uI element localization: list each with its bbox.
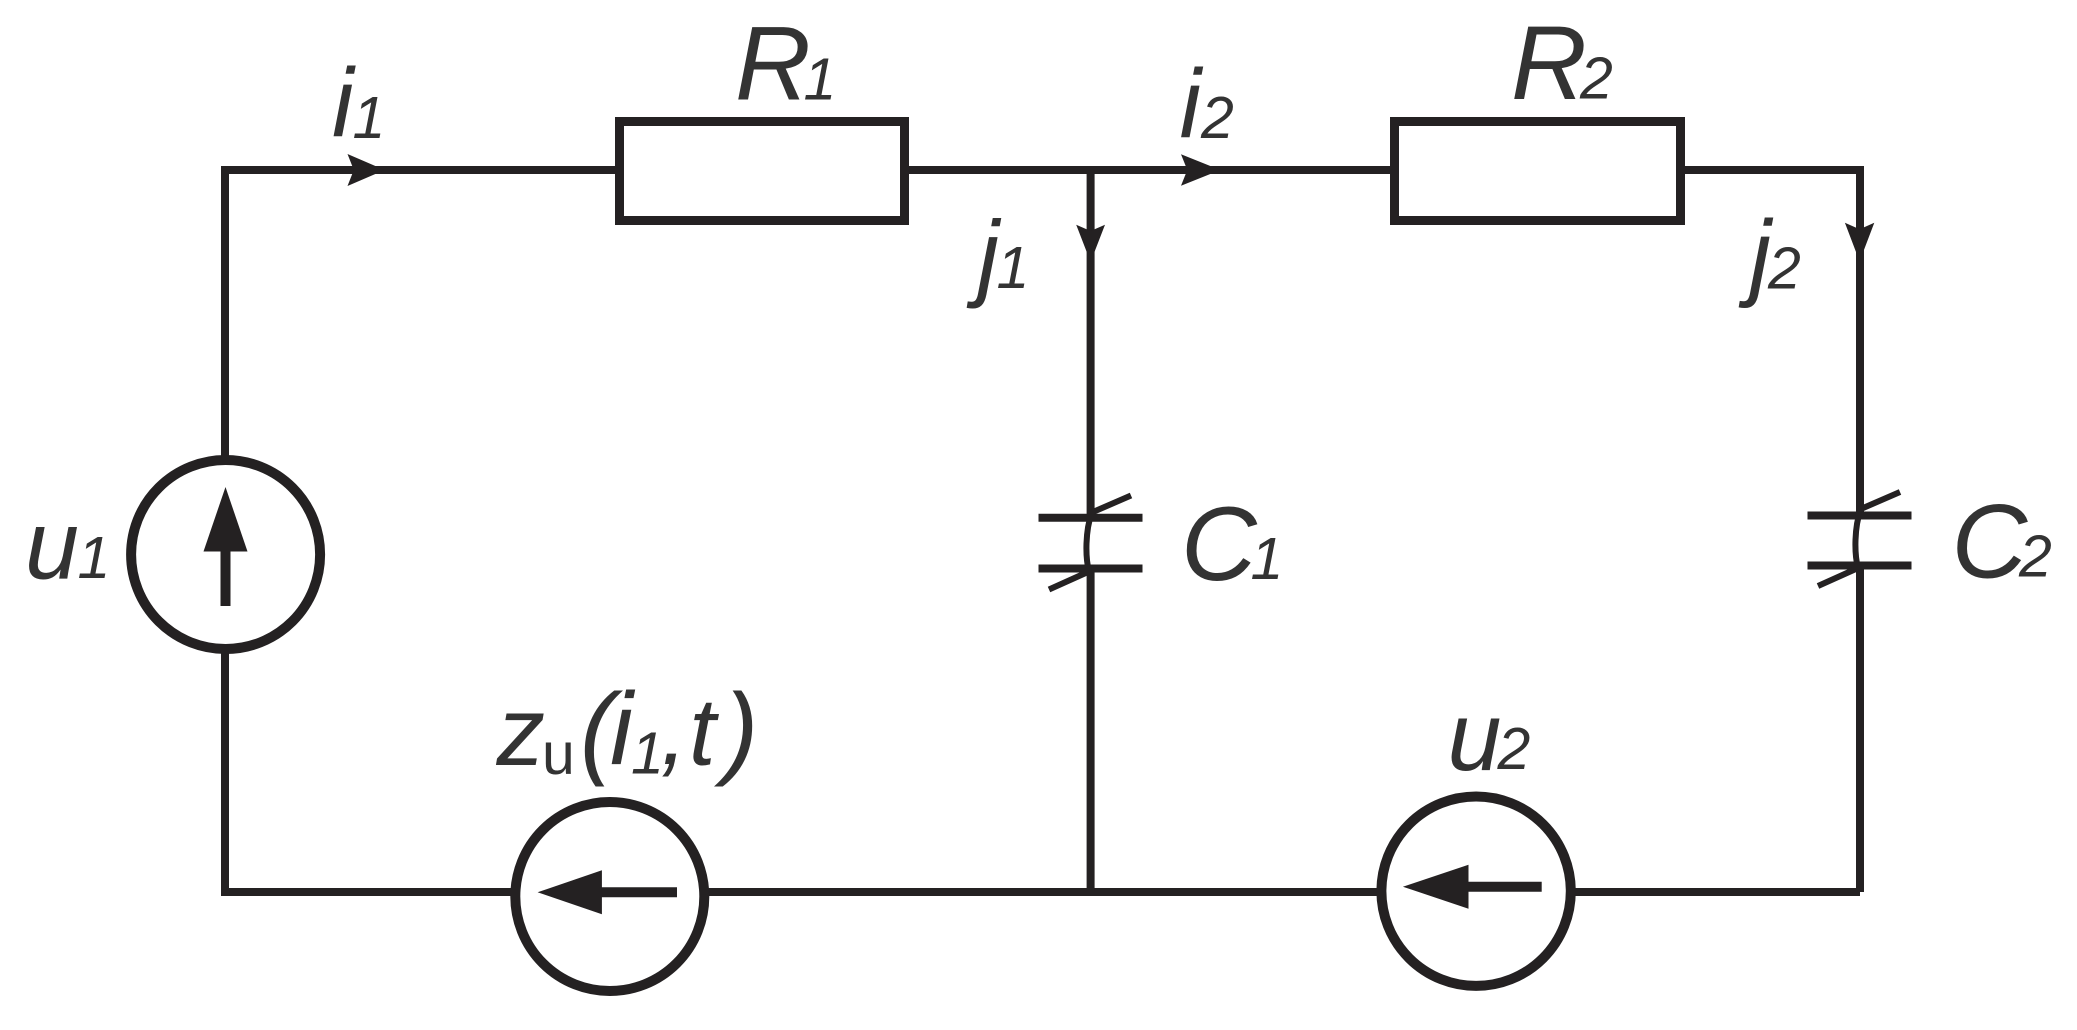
svg-text:C: C: [1952, 484, 2029, 601]
wire C1 branch upper: [1087, 170, 1095, 518]
wire bottom horizontal: [221, 888, 1860, 896]
arrow i2: [1181, 154, 1220, 185]
svg-text:1: 1: [353, 85, 386, 151]
source u1 arrow: [221, 545, 231, 606]
svg-text:2: 2: [2018, 524, 2052, 590]
source u2 circle: [1381, 797, 1570, 986]
wire right vertical lower: [1856, 566, 1864, 892]
resistor R2: [1395, 122, 1681, 221]
capacitor C1 bottom plate: [1039, 565, 1143, 573]
svg-text:i: i: [1180, 49, 1204, 158]
svg-text:R: R: [735, 6, 811, 123]
source u2 arrow: [1462, 882, 1542, 892]
wire left vertical: [221, 166, 229, 892]
svg-text:2: 2: [1497, 716, 1531, 782]
svg-text:C: C: [1181, 486, 1258, 603]
svg-text:1: 1: [78, 525, 111, 591]
svg-text:2: 2: [1767, 236, 1801, 302]
svg-text:2: 2: [1579, 46, 1613, 112]
svg-text:): ): [713, 672, 758, 787]
resistor R1: [620, 122, 905, 221]
capacitor C2 nonlinear curve: [1818, 492, 1900, 586]
svg-text:1: 1: [804, 47, 837, 113]
source z_u circle: [515, 802, 704, 991]
svg-text:1: 1: [997, 235, 1030, 301]
arrow i1: [348, 154, 385, 186]
source u1 circle: [131, 460, 320, 649]
svg-text:R: R: [1511, 5, 1587, 122]
svg-text:1: 1: [1251, 526, 1284, 592]
svg-text:,: ,: [661, 676, 688, 785]
wire C1 branch lower: [1087, 568, 1095, 892]
svg-text:t: t: [689, 679, 719, 786]
wire top horizontal: [225, 166, 1860, 174]
svg-text:2: 2: [1200, 85, 1234, 151]
capacitor C1 nonlinear curve: [1049, 496, 1131, 590]
wire right vertical: [1856, 166, 1864, 518]
capacitor C2 bottom plate: [1808, 562, 1912, 570]
arrow j1: [1076, 225, 1105, 262]
arrow j2: [1845, 223, 1874, 262]
svg-text:u: u: [1448, 682, 1502, 791]
capacitor C2 top plate: [1808, 512, 1912, 520]
svg-text:z: z: [496, 677, 546, 786]
capacitor C1 top plate: [1039, 514, 1143, 522]
svg-text:u: u: [542, 721, 575, 787]
svg-text:u: u: [25, 490, 79, 599]
svg-text:1: 1: [631, 721, 664, 787]
source z_u arrow: [598, 887, 677, 897]
